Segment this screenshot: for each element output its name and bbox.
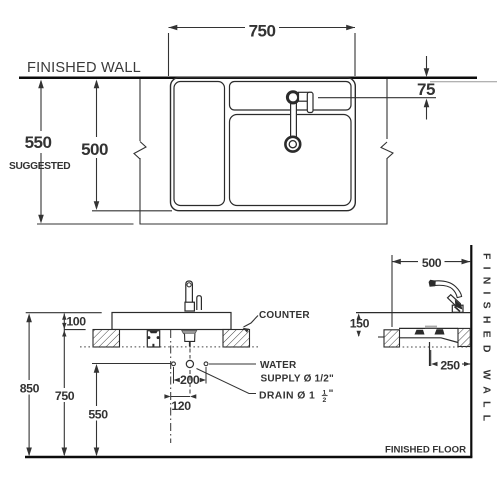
side counter hatch right [458,328,470,346]
svg-text:2: 2 [323,397,327,404]
svg-text:850: 850 [20,382,40,396]
drain centerline dashed [189,342,191,359]
svg-text:550: 550 [88,407,108,421]
faucet plan handle [299,92,312,101]
sink rim front [112,313,231,330]
side counter hidden bottom dotted [390,346,470,348]
side sink section lower line [399,338,458,343]
dimension 120 [171,396,190,398]
dimension 750 line [169,28,356,77]
svg-text:DRAIN Ø 1: DRAIN Ø 1 [259,391,315,402]
sink bowl [230,115,352,206]
water supply points [172,362,176,366]
side sink section rim line [399,327,458,329]
sink outer rim [171,78,356,211]
faucet front spout [186,281,193,302]
100 lower reference line [64,329,85,331]
svg-text:FINISHED FLOOR: FINISHED FLOOR [385,445,466,456]
drain point [186,360,193,367]
svg-text:SUPPLY Ø 1/2": SUPPLY Ø 1/2" [261,374,335,385]
svg-text:550: 550 [25,133,52,152]
dimension 850 [28,316,30,455]
dimension 200 [173,367,175,384]
counter label leader [244,316,259,328]
drain leader [197,369,257,394]
150 lower reference [378,336,390,338]
dimension 150 [357,313,361,319]
finished wall line [19,77,477,80]
counter hatch right [223,330,250,348]
svg-text:COUNTER: COUNTER [259,310,310,321]
water supply leader [209,363,256,365]
hidden counter bottom dotted [80,346,258,348]
counter top reference line [26,312,102,314]
550 reference line [92,363,171,365]
svg-text:200: 200 [180,373,200,387]
dimension 250 [430,350,432,366]
floor line [25,456,472,459]
svg-text:FINISHED WALL: FINISHED WALL [481,253,493,428]
dimension 75 [426,56,428,71]
counter hatch left [93,330,120,348]
svg-text:750: 750 [55,389,75,403]
svg-text:FINISHED WALL: FINISHED WALL [27,60,141,76]
supply valve body [147,331,159,347]
svg-text:75: 75 [417,80,435,99]
svg-text:WATER: WATER [260,360,297,371]
faucet leader line [318,97,436,99]
fixture centerline [170,330,172,443]
500 reference line [92,210,172,212]
side counter top line [356,312,470,314]
side wall line [470,245,472,457]
side faucet handle [448,295,462,309]
drain lever bumps [415,330,425,335]
dimension 500 line [96,81,98,208]
svg-text:100: 100 [66,315,86,329]
svg-text:500: 500 [81,140,108,159]
dimension 550 elevation [96,367,98,455]
side counter hatch left [384,330,400,347]
sink rear ledge [230,82,352,111]
dimension 550 line [40,81,42,221]
svg-text:250: 250 [440,359,460,373]
svg-text:": " [329,389,334,400]
side faucet tip [429,280,436,287]
dimension 100 and 750 shared line [63,314,65,456]
svg-text:120: 120 [171,399,191,413]
svg-text:SUGGESTED: SUGGESTED [9,161,70,172]
sink drainboard [174,82,225,206]
drain tailpiece [429,342,431,366]
faucet plan aerator ring [285,137,300,152]
faucet front base [185,302,194,311]
side faucet spout [435,281,462,298]
faucet plan spout bar [291,100,297,138]
side sink drain slot [425,326,437,329]
dimension 500 side [392,255,470,327]
drain flange [182,330,197,333]
svg-text:750: 750 [249,22,276,41]
faucet front handle [197,296,202,310]
svg-text:500: 500 [422,256,442,270]
counter outline plan [134,79,393,224]
side faucet base [452,305,463,312]
550 reference line [37,223,134,225]
wall line thin continuation [430,81,497,83]
svg-text:150: 150 [350,317,370,331]
faucet plan base ring [287,92,298,103]
dimension 750 arrows [169,25,178,31]
